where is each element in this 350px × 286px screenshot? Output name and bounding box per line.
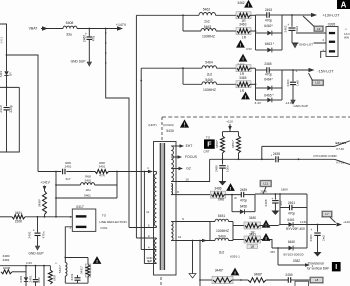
svg-text:1m0: 1m0 (296, 80, 300, 86)
svg-text:GND-LOT: GND-LOT (299, 42, 313, 46)
svg-text:2464: 2464 (286, 79, 290, 86)
svg-text:2491: 2491 (28, 231, 32, 238)
ground (2460) (314, 252, 322, 257)
node L9 (314, 26, 324, 32)
svg-text:VBAT: VBAT (29, 27, 39, 31)
wire +13V-LOT output (282, 14, 312, 16)
svg-text:5430: 5430 (166, 129, 174, 133)
svg-text:2u2: 2u2 (219, 250, 225, 254)
svg-text:33u: 33u (66, 32, 72, 36)
wire to +147V (77, 28, 117, 30)
svg-text:2455: 2455 (273, 152, 280, 156)
svg-text:2460: 2460 (309, 234, 313, 241)
capacitor 2464 1m0 (292, 70, 294, 81)
svg-text:G2: G2 (186, 167, 191, 171)
svg-text:(COLD): (COLD) (163, 123, 173, 127)
diode 6481 (25, 266, 27, 277)
ground GND-LOT (293, 44, 297, 48)
diode 6419 (4, 71, 8, 75)
ground GND-SUP (2491) (35, 246, 39, 250)
wire bar block2 left (182, 68, 184, 84)
wire 5421 loop bottom (65, 282, 88, 284)
wire (232, 279, 248, 281)
warning triangle (3463) (236, 40, 245, 48)
svg-text:150K: 150K (15, 220, 23, 224)
wire GND-LOT row (292, 42, 326, 44)
svg-text:FOCUS: FOCUS (185, 155, 198, 159)
wire dashed hot/cold separator (162, 116, 350, 118)
capacitor 2419 (4, 107, 10, 109)
svg-text:+: + (295, 70, 297, 74)
wire parallel bar right (254, 195, 256, 212)
node L11 (260, 180, 272, 187)
svg-text:2462: 2462 (284, 25, 288, 32)
svg-text:470p: 470p (288, 211, 295, 215)
wire block1 output bar left (250, 14, 256, 16)
svg-text:6456: 6456 (240, 205, 247, 209)
wire parallel bar left (231, 195, 233, 212)
svg-text:+: + (33, 229, 35, 233)
wire feed block1 (136, 14, 199, 16)
wire 5421 loop top (65, 257, 88, 259)
svg-text:+110: +110 (343, 220, 350, 224)
svg-text:(HOT): (HOT) (148, 123, 156, 127)
svg-text:6481: 6481 (19, 275, 23, 282)
svg-text:180V: 180V (281, 187, 288, 191)
svg-text:GND-SUP: GND-SUP (29, 251, 44, 255)
svg-text:47u: 47u (92, 36, 96, 42)
svg-text:0395: 0395 (328, 22, 336, 26)
capacitor 2468 4n7 (274, 194, 276, 200)
resistor 3451 (238, 132, 240, 136)
node L10 (312, 80, 324, 86)
svg-text:18u: 18u (85, 188, 90, 192)
svg-text:10: 10 (185, 177, 189, 181)
inductor 5463 100MHZ (183, 30, 201, 32)
wire (266, 279, 288, 281)
svg-text:6R8: 6R8 (218, 198, 224, 202)
wire DYN-MOD CORR K7-31 (262, 158, 275, 160)
svg-text:2u2: 2u2 (204, 20, 210, 24)
svg-text:SUP: SUP (147, 259, 153, 263)
wire block1 output bar right (281, 15, 283, 50)
wire riser (261, 146, 263, 159)
svg-text:WH: WH (344, 35, 349, 39)
svg-text:3498*: 3498* (38, 198, 42, 207)
wires to 1R resistors (block2) (217, 67, 238, 69)
svg-text:5462: 5462 (203, 8, 211, 12)
svg-text:4.3V: 4.3V (26, 261, 32, 265)
ground GND-SUP (2464) (291, 100, 295, 104)
resistor 3498 (44, 186, 46, 192)
wire row to right (255, 193, 307, 195)
svg-text:-14.8V: -14.8V (285, 101, 294, 105)
connector (bottom edge) (295, 281, 308, 286)
svg-text:6463 *: 6463 * (265, 42, 275, 46)
svg-text:BYV29F-400: BYV29F-400 (286, 227, 305, 231)
svg-text:3451*: 3451* (231, 139, 235, 148)
svg-text:2459: 2459 (285, 273, 292, 277)
wire 0382 row (277, 248, 279, 265)
node L8 (310, 277, 324, 284)
wire to 3480 (233, 225, 245, 227)
svg-text:1R: 1R (242, 36, 247, 40)
transformer winding (pins 10-8) (171, 184, 172, 195)
svg-text:+: + (272, 197, 274, 201)
inductor 5451 100MHZ (210, 221, 215, 223)
svg-text:2u2: 2u2 (207, 72, 213, 76)
svg-text:COIL: COIL (100, 226, 108, 230)
svg-text:2460: 2460 (83, 35, 87, 42)
wire B41-W1 K7-30 (262, 145, 335, 147)
warning triangle (3431) (93, 256, 102, 264)
svg-text:6464*: 6464* (264, 78, 273, 82)
warning triangle (5430) (180, 119, 189, 127)
svg-text:2468: 2468 (264, 199, 268, 206)
svg-text:for vertical DAF: for vertical DAF (307, 267, 329, 271)
svg-text:2481: 2481 (28, 275, 32, 282)
wire +110 output (307, 224, 336, 226)
capacitor 2481 680 (35, 266, 37, 279)
svg-text:3463: 3463 (239, 22, 246, 26)
svg-text:+141V: +141V (40, 181, 50, 185)
svg-text:6K8: 6K8 (52, 275, 56, 281)
svg-text:470p: 470p (265, 72, 272, 76)
svg-text:L10: L10 (315, 81, 320, 85)
wire 3481 to 6460 (260, 240, 273, 249)
svg-text:BY103-200/20: BY103-200/20 (284, 252, 304, 256)
svg-text:2465: 2465 (264, 62, 271, 66)
node +147V (117, 26, 123, 30)
wire damping loop right bar (116, 172, 118, 199)
svg-text:2489: 2489 (240, 188, 247, 192)
ground open triangle (189, 274, 196, 279)
wire V34T feed (41, 28, 63, 30)
svg-text:3462: 3462 (237, 1, 244, 5)
svg-text:470p: 470p (265, 19, 272, 23)
transformer EHT winding (171, 146, 173, 182)
svg-text:+147V: +147V (116, 23, 127, 27)
svg-text:3481: 3481 (3, 258, 10, 262)
wire resistor top bar (223, 131, 239, 133)
wire branch right (7, 55, 39, 172)
svg-text:Provisional: Provisional (308, 261, 324, 265)
ground (2468) (271, 211, 279, 216)
svg-text:6462*: 6462* (264, 24, 273, 28)
wire block right bar (306, 194, 308, 248)
capacitor 2491 (37, 217, 39, 233)
svg-text:L8: L8 (315, 278, 319, 282)
wire 0395 pin1 (296, 32, 326, 34)
warning triangle (3464) (239, 54, 248, 62)
svg-text:GND SUP: GND SUP (71, 59, 86, 63)
svg-text:470n: 470n (42, 231, 46, 238)
wire block2 bar right (281, 70, 283, 100)
svg-text:GND-SUP: GND-SUP (294, 104, 308, 108)
transformer 5430 body (154, 142, 177, 276)
warning triangle (3462) (244, 0, 253, 8)
svg-text:DYN-MOD CORR: DYN-MOD CORR (314, 154, 337, 158)
svg-text:3401: 3401 (99, 164, 106, 168)
svg-text:3450*: 3450* (215, 139, 219, 148)
wire feed block2 (141, 67, 202, 69)
svg-text:<8V: <8V (270, 250, 277, 254)
svg-text:100MHZ: 100MHZ (203, 88, 216, 92)
G2 output (171, 168, 181, 170)
wire to ground (open triangle) (192, 241, 194, 274)
FOCUS output (171, 156, 180, 158)
wire damping loop left bar (55, 172, 57, 217)
wire pin 8 row (176, 194, 211, 196)
svg-text:LINE DEFLECTION: LINE DEFLECTION (99, 220, 127, 224)
capacitor 2460 2m2 (317, 225, 319, 232)
wire feed -15V block down to pin 4 (140, 68, 142, 249)
svg-text:680: 680 (37, 277, 41, 282)
svg-text:3465: 3465 (239, 76, 246, 80)
svg-text:TO: TO (206, 136, 211, 140)
svg-text:1R: 1R (240, 89, 245, 93)
svg-text:K7-30: K7-30 (337, 147, 345, 151)
svg-text:9401: 9401 (84, 193, 91, 197)
wire node row 150K (0, 216, 12, 218)
warning triangle (3465) (241, 92, 250, 100)
wire 3480 output (260, 225, 279, 227)
warning triangle (3446) (231, 268, 240, 276)
resistor 3482 6K8 (49, 266, 51, 270)
transformer winding (pins 3-4-6) (154, 239, 156, 263)
svg-text:100MHZ: 100MHZ (216, 229, 229, 233)
wire divider bottom row (210, 158, 262, 160)
svg-text:BY: BY (9, 72, 13, 76)
svg-text:A: A (341, 0, 347, 9)
svg-text:3.3V: 3.3V (255, 101, 262, 105)
svg-text:5451: 5451 (218, 214, 226, 218)
wire block left bar (279, 194, 281, 225)
transformer primary winding (pins 1-5) (154, 174, 156, 226)
warning triangle (3481) (262, 233, 271, 241)
svg-text:3431*: 3431* (80, 265, 84, 274)
svg-text:+: + (310, 228, 312, 232)
svg-text:L7: L7 (325, 212, 329, 216)
wire block2 bar left (250, 67, 256, 69)
svg-text:5408: 5408 (66, 21, 74, 25)
svg-text:+13V-LOT: +13V-LOT (323, 13, 341, 17)
svg-text:100n: 100n (225, 165, 229, 172)
node L7 (322, 211, 333, 218)
svg-text:2461: 2461 (288, 201, 295, 205)
svg-text:2419: 2419 (0, 105, 3, 112)
svg-text:0.5V: 0.5V (246, 47, 252, 51)
svg-text:1R: 1R (250, 245, 255, 249)
svg-text:100MHZ: 100MHZ (202, 35, 215, 39)
wire bar block3 left (209, 222, 211, 241)
svg-text:B41-W1: B41-W1 (336, 141, 347, 145)
inductor 5465 100MHZ (183, 83, 202, 85)
svg-text:3480: 3480 (249, 216, 256, 220)
svg-text:2401: 2401 (65, 164, 72, 168)
wire 0317 pin2 (65, 227, 72, 258)
svg-text:EHT: EHT (186, 144, 193, 148)
svg-text:+: + (287, 23, 289, 27)
svg-text:6391-1: 6391-1 (230, 254, 240, 258)
warning triangle (2480) (226, 183, 235, 191)
svg-text:12: 12 (178, 235, 182, 239)
wire to 3481 (233, 239, 245, 241)
svg-text:470p: 470p (240, 198, 247, 202)
svg-text:11: 11 (146, 210, 149, 214)
svg-text:6465 *: 6465 * (264, 94, 274, 98)
svg-text:4n7: 4n7 (279, 200, 283, 205)
wires to 1R resistors (216, 14, 238, 16)
svg-text:-15V-LOT: -15V-LOT (318, 69, 335, 73)
svg-text:5400: 5400 (218, 234, 226, 238)
wire down to secondary row (199, 241, 201, 286)
svg-text:F: F (207, 142, 212, 149)
wire to 2489/6456 bar (225, 194, 242, 196)
svg-text:5464: 5464 (205, 61, 213, 65)
node I box (332, 262, 341, 271)
svg-text:L9: L9 (317, 27, 321, 31)
transformer core (160, 143, 164, 270)
svg-text:3m3: 3m3 (295, 26, 299, 32)
EHT output (171, 145, 182, 147)
resistor 3450 (222, 132, 224, 136)
svg-text:2480: 2480 (215, 165, 219, 172)
svg-text:3446*: 3446* (215, 268, 224, 272)
svg-text:6419: 6419 (0, 70, 3, 77)
wire bar block3 right (232, 222, 234, 241)
svg-text:CRT: CRT (203, 150, 209, 154)
inductor 5421 (64, 258, 66, 263)
svg-text:3486: 3486 (214, 186, 221, 190)
svg-text:I: I (335, 264, 337, 271)
wire pin 6 riser (143, 172, 145, 264)
wire to LOT pin 1 (38, 171, 61, 173)
svg-text:3468*: 3468* (254, 273, 263, 277)
svg-text:0317: 0317 (76, 205, 84, 209)
wire junction left (0, 86, 19, 88)
svg-text:4n7: 4n7 (65, 177, 70, 181)
ground (2480) (219, 181, 227, 186)
capacitor 2460 (88, 29, 90, 37)
svg-text:220p: 220p (9, 105, 13, 112)
svg-text:11.5V: 11.5V (300, 220, 307, 224)
wire loop left-mid (0, 87, 19, 152)
capacitor 2482 (43, 266, 45, 286)
capacitor 2480 100n (222, 159, 224, 164)
svg-text:6460: 6460 (288, 240, 295, 244)
svg-text:6461: 6461 (287, 218, 294, 222)
svg-text:47R: 47R (99, 174, 105, 178)
wire bar block1 left (182, 15, 184, 31)
svg-text:2463: 2463 (265, 8, 272, 12)
svg-text:L11: L11 (263, 182, 268, 186)
svg-text:+110: +110 (226, 119, 233, 123)
box edge top-left (partial block) (0, 24, 7, 55)
svg-text:5421*: 5421* (58, 264, 62, 273)
wire 0395 pin3 (321, 51, 326, 58)
wire -15V-LOT output (282, 69, 309, 71)
svg-text:5401: 5401 (85, 178, 92, 182)
svg-text:0382: 0382 (293, 259, 300, 263)
inductor 5401 18u (56, 184, 81, 186)
svg-text:2m2: 2m2 (322, 235, 326, 241)
transformer winding (pins 9-12) (171, 222, 173, 241)
wire from input box down (6, 55, 8, 71)
capacitor 2462 3m3 (291, 15, 293, 27)
svg-text:9419: 9419 (0, 36, 4, 43)
wire +147V branch down to LOT pin 5 (106, 29, 129, 228)
node A box (337, 0, 350, 9)
warning triangle (3480) (262, 220, 271, 228)
resistor 3431 (87, 258, 89, 265)
wire feed +13V block down to pin 3 (135, 15, 137, 238)
svg-text:TO: TO (102, 214, 107, 218)
svg-text:2431: 2431 (70, 273, 74, 280)
svg-text:K7-31: K7-31 (337, 160, 345, 164)
svg-text:100R: 100R (3, 266, 11, 270)
